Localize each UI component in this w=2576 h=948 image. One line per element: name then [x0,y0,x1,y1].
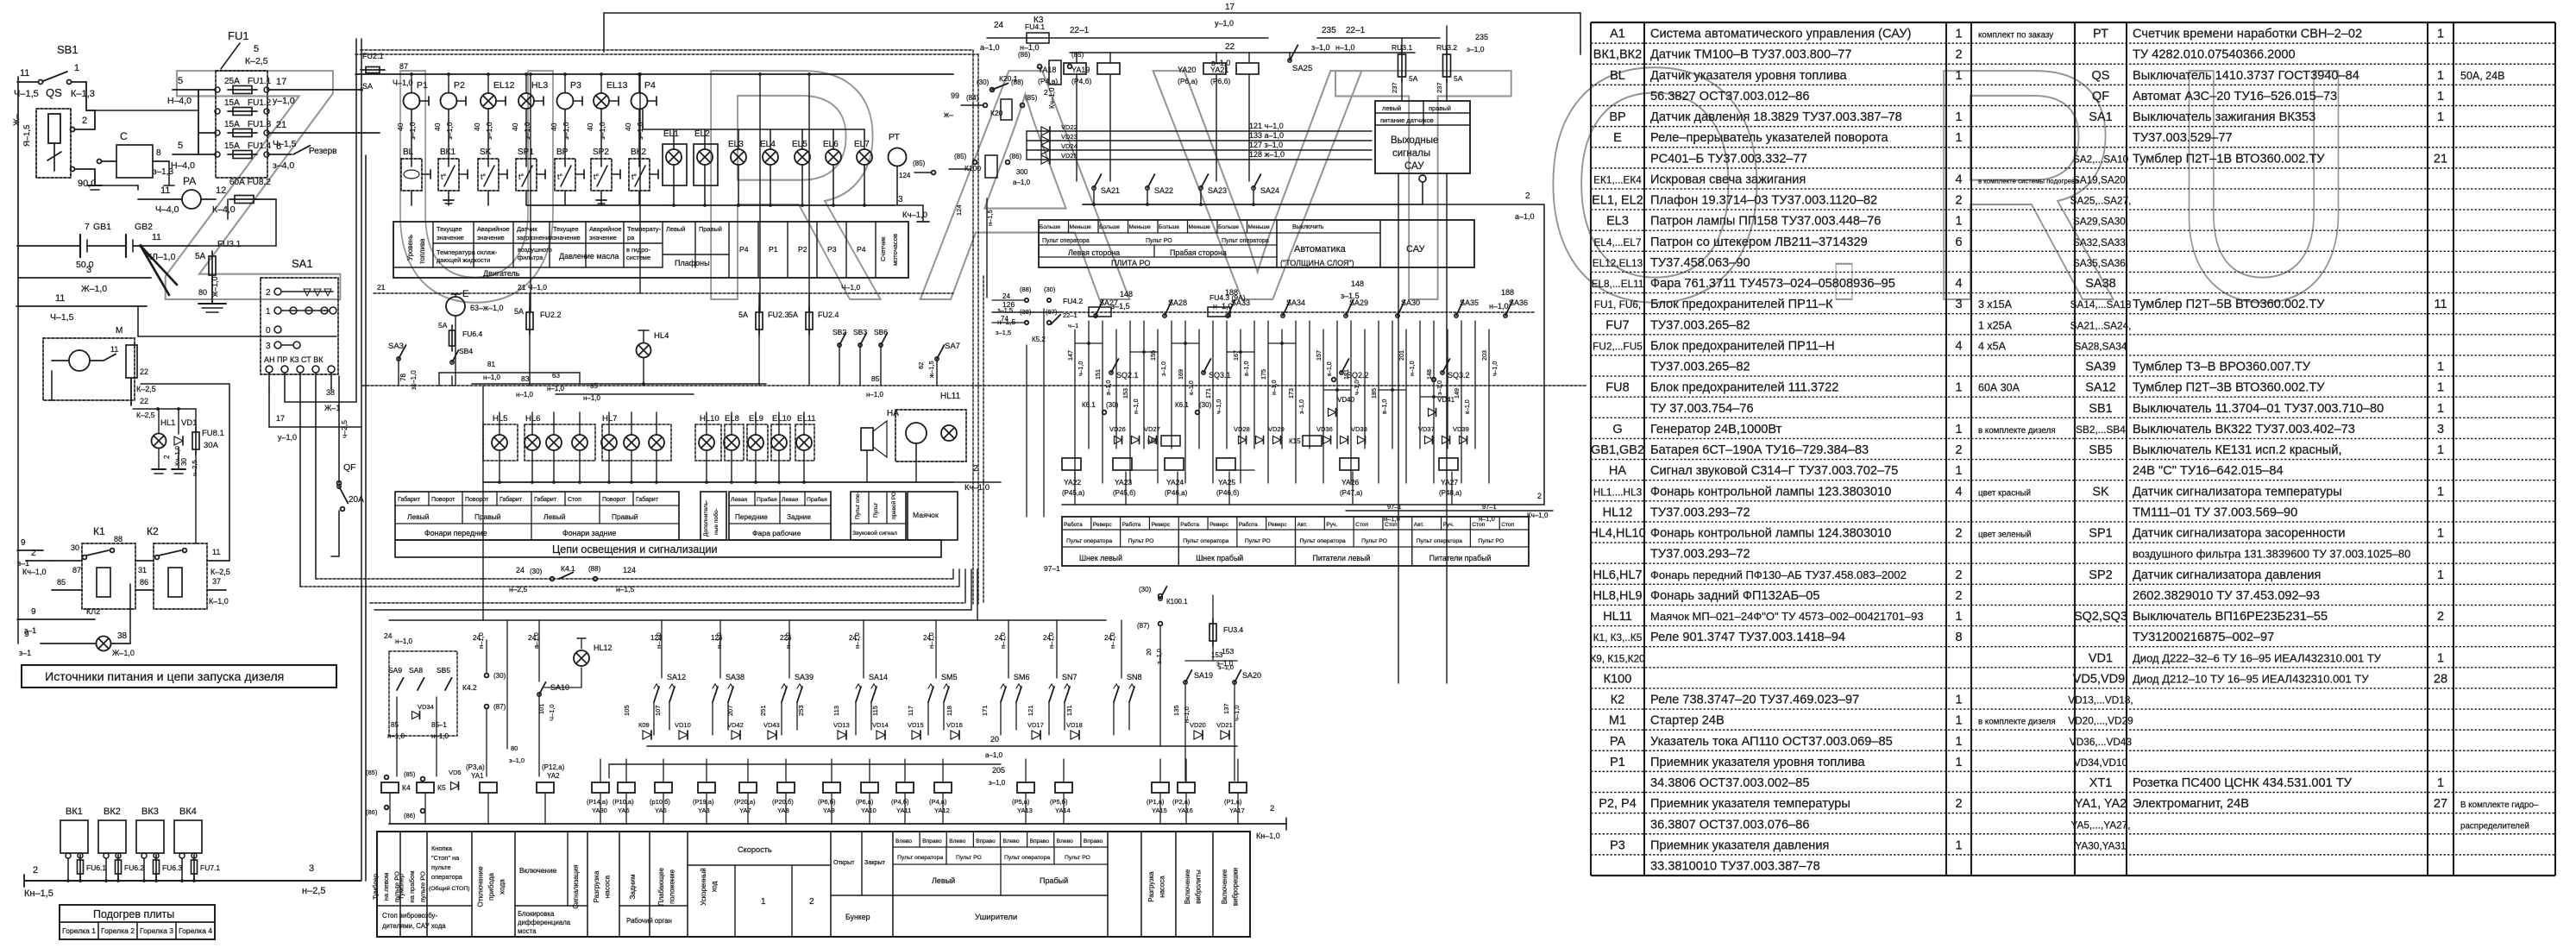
svg-text:VD42: VD42 [727,721,744,729]
svg-text:(85): (85) [913,160,926,167]
svg-text:з–1,0: з–1,0 [1216,660,1234,668]
svg-text:Работа: Работа [1239,521,1258,528]
svg-text:SB1: SB1 [57,43,79,56]
svg-text:FU3.1: FU3.1 [217,240,242,249]
svg-text:Пульт оператора: Пульт оператора [1183,538,1228,544]
svg-text:Датчик указателя уровня топлив: Датчик указателя уровня топлива [1650,69,1848,83]
svg-text:22: 22 [1225,42,1235,52]
bottom switch row and coils [389,586,1286,840]
svg-text:VD26: VD26 [1109,425,1126,433]
svg-text:К1, К3,..К5: К1, К3,..К5 [1593,631,1643,644]
svg-text:К2: К2 [147,525,159,537]
svg-text:(Р1,а): (Р1,а) [1224,798,1242,806]
svg-text:з–1,0: з–1,0 [485,122,493,140]
svg-text:Выключатель 1410.3737 ГОСТ: Выключатель 1410.3737 ГОСТ3940–84 [2133,69,2359,83]
svg-text:Батарея 6СТ–190А ТУ16–729.384–: Батарея 6СТ–190А ТУ16–729.384–83 [1650,443,1869,457]
svg-text:5: 5 [178,76,183,86]
svg-text:BL: BL [403,148,414,157]
svg-text:t°: t° [481,173,487,181]
svg-text:Пульт РО: Пульт РО [1065,855,1090,861]
svg-text:YA26: YA26 [1341,478,1359,487]
svg-text:н–1,0: н–1,0 [477,632,485,649]
svg-text:ж–: ж– [944,110,953,119]
svg-text:148: 148 [1351,279,1364,288]
svg-text:(85): (85) [954,153,967,160]
svg-text:К–2,5: К–2,5 [136,411,155,419]
svg-text:1: 1 [2437,69,2444,83]
svg-text:FU1.1: FU1.1 [248,77,272,86]
svg-text:EL10: EL10 [772,414,791,424]
svg-text:ч–1,0: ч–1,0 [1216,399,1222,414]
svg-text:HL12: HL12 [594,644,613,652]
svg-text:(87): (87) [493,703,506,711]
svg-text:1: 1 [1955,714,1962,728]
svg-text:н–1,0: н–1,0 [1047,632,1055,649]
svg-text:EL8: EL8 [725,414,739,424]
svg-text:SA12: SA12 [667,673,686,681]
svg-text:8: 8 [156,148,161,158]
svg-text:Рабочий орган: Рабочий орган [626,917,672,925]
svg-text:Прабая: Прабая [757,496,777,503]
svg-text:0: 0 [266,326,271,336]
svg-text:1: 1 [2437,402,2444,416]
svg-text:ч–1,0: ч–1,0 [1492,361,1498,376]
svg-text:SA28: SA28 [1168,298,1187,307]
svg-text:22: 22 [140,367,148,376]
svg-text:(86): (86) [404,812,416,819]
svg-text:Розетка ПС400 ЦСНК 434.531.001: Розетка ПС400 ЦСНК 434.531.001 ТУ [2133,776,2353,790]
svg-text:з–1,0: з–1,0 [509,757,525,764]
switch QS [12,86,102,190]
svg-text:1: 1 [1955,381,1962,395]
svg-text:4: 4 [1955,339,1962,353]
svg-text:Цепи освещения и сигнализац: Цепи освещения и сигнализации [552,543,718,556]
svg-text:Р2, Р4: Р2, Р4 [1599,797,1637,811]
svg-text:YA1: YA1 [471,772,484,780]
svg-text:Генератор 24В,1000Вт: Генератор 24В,1000Вт [1650,423,1782,436]
svg-text:н–1,0: н–1,0 [395,637,413,645]
svg-text:T: T [1329,0,1518,370]
svg-text:HL7: HL7 [602,414,617,424]
svg-text:15А: 15А [224,98,240,108]
svg-text:EL4: EL4 [760,140,776,149]
svg-text:(Р19,а): (Р19,а) [693,798,714,806]
svg-text:2: 2 [1955,48,1962,62]
svg-text:Прабый: Прабый [1040,876,1068,885]
svg-text:Горелка 3: Горелка 3 [140,926,173,935]
svg-text:(Р20,а): (Р20,а) [734,798,756,806]
svg-text:в–1,0: в–1,0 [1244,361,1250,376]
svg-text:(Р6,б): (Р6,б) [818,798,836,806]
svg-text:(Р4,а): (Р4,а) [929,798,947,806]
svg-text:SA1: SA1 [292,257,313,270]
svg-text:VD36,...VD43: VD36,...VD43 [2070,736,2133,748]
svg-text:Указатель тока АП110 ОСТ37.003: Указатель тока АП110 ОСТ37.003.069–85 [1650,735,1893,749]
svg-text:пульте: пульте [431,863,451,871]
svg-text:Счетчик: Счетчик [879,236,887,261]
svg-text:15А: 15А [224,141,240,151]
svg-text:2: 2 [82,116,87,126]
svg-text:97–1: 97–1 [1482,503,1497,511]
lamp row HL5-HL11 and horn HA [362,374,1587,493]
svg-text:EL3: EL3 [728,140,744,149]
starter M1 circuit [43,326,156,405]
svg-text:11: 11 [152,232,161,242]
svg-text:YA21: YA21 [1210,66,1228,74]
ammeter PA [138,175,236,215]
svg-text:SA21,..SA24,: SA21,..SA24, [2070,319,2132,331]
svg-text:Фара рабочие: Фара рабочие [752,529,801,537]
svg-text:24: 24 [516,566,525,574]
svg-text:30: 30 [71,543,79,552]
svg-text:з–1,0: з–1,0 [1299,399,1305,414]
svg-text:к–1,0: к–1,0 [1189,380,1195,395]
svg-text:2: 2 [163,455,171,459]
svg-text:YA24: YA24 [1166,478,1184,487]
svg-text:Больше: Больше [1218,224,1239,230]
svg-text:Реверс: Реверс [1268,522,1288,528]
svg-text:(Общий СТОП): (Общий СТОП) [429,885,469,892]
svg-text:ТУ 37.003.754–76: ТУ 37.003.754–76 [1650,402,1754,416]
svg-text:Р2: Р2 [454,80,465,91]
svg-text:147: 147 [1066,350,1074,361]
svg-text:3: 3 [86,265,91,275]
svg-text:235: 235 [1475,33,1488,41]
svg-text:HL5: HL5 [493,414,507,424]
svg-text:40: 40 [586,122,594,131]
svg-text:Правый: Правый [474,512,501,521]
svg-text:1: 1 [1955,735,1962,749]
svg-text:SА: SА [362,82,373,91]
svg-text:Тумблер П2Т–5В ВТО360.: Тумблер П2Т–5В ВТО360.002.ТУ [2133,298,2325,311]
svg-text:EL1, EL2: EL1, EL2 [1592,194,1643,208]
switch row SA27-SA36 [992,279,1536,326]
svg-text:237: 237 [1436,82,1443,93]
svg-text:Поворот: Поворот [431,497,456,503]
svg-text:(Р48,а): (Р48,а) [1439,489,1462,497]
svg-text:Пульт: Пульт [873,503,879,518]
svg-text:Сигнал звуковой С314–Г ТУ37.00: Сигнал звуковой С314–Г ТУ37.003.702–75 [1650,464,1898,478]
svg-text:"Стоп" на: "Стоп" на [431,854,460,862]
svg-text:SN7: SN7 [1062,673,1078,681]
svg-text:1: 1 [2437,90,2444,104]
glow plugs BK1-BK4 [24,807,361,899]
svg-text:1: 1 [1955,838,1962,852]
svg-text:Пульт РО: Пульт РО [1245,538,1271,544]
svg-text:133 а–1,0: 133 а–1,0 [1249,131,1284,140]
svg-text:SA35,SA36,: SA35,SA36, [2073,257,2128,269]
svg-text:н–1,0: н–1,0 [1489,302,1509,311]
svg-text:топлива: топлива [418,238,426,264]
svg-text:151: 151 [1094,369,1102,380]
svg-text:SA14: SA14 [869,673,888,681]
svg-text:YA30,YA31: YA30,YA31 [2075,839,2126,851]
svg-text:GB2: GB2 [135,222,153,232]
main horizontal buses [300,39,1544,881]
svg-text:Поворот: Поворот [465,497,489,503]
svg-text:ч–1: ч–1 [1068,322,1078,330]
svg-text:EL4,...EL7: EL4,...EL7 [1593,236,1641,248]
svg-text:з–1,0: з–1,0 [1155,649,1163,664]
svg-text:з–1,0: з–1,0 [445,122,454,140]
svg-text:н–1,0: н–1,0 [1183,706,1191,723]
svg-text:з–4,0: з–4,0 [273,160,294,171]
svg-text:121: 121 [1027,705,1034,716]
svg-text:Блок предохранителей ПР11–Н: Блок предохранителей ПР11–Н [1650,339,1835,353]
svg-text:YA22: YA22 [1064,478,1081,487]
svg-text:56.3827 ОСТ37.003.012–86: 56.3827 ОСТ37.003.012–86 [1650,90,1810,104]
svg-text:Р1: Р1 [769,245,778,254]
svg-text:VD13: VD13 [833,721,850,729]
svg-text:121 ч–1,0: 121 ч–1,0 [1249,122,1284,130]
svg-text:Стоп: Стоп [1501,522,1514,528]
svg-text:30: 30 [180,458,188,466]
svg-text:FU2.1: FU2.1 [362,52,384,60]
svg-text:128 ж–1,0: 128 ж–1,0 [1249,150,1285,159]
sensor header table [393,222,908,278]
svg-text:Пульт опе-: Пульт опе- [855,492,861,519]
svg-text:20: 20 [990,735,999,744]
svg-text:значение: значение [477,234,505,242]
svg-text:в–1,0: в–1,0 [1106,380,1112,395]
svg-text:Р3: Р3 [827,245,837,254]
svg-text:Подогрев плиты: Подогрев плиты [93,908,174,920]
control cluster SA9 SA10 K4 K5 [366,620,613,824]
svg-text:Автоматика: Автоматика [1294,244,1347,254]
svg-text:t°: t° [557,173,563,181]
top wire 17 [604,3,1580,54]
svg-text:правой РО: правой РО [890,492,897,519]
svg-text:99: 99 [951,91,959,100]
svg-text:н–1,0: н–1,0 [784,632,792,649]
svg-text:173: 173 [1287,388,1295,399]
svg-text:HL1....HL3: HL1....HL3 [1593,486,1643,498]
svg-text:QF: QF [343,462,356,473]
svg-text:Текущее: Текущее [437,225,462,233]
svg-text:207: 207 [726,705,734,716]
svg-text:Вправо: Вправо [1030,838,1050,844]
svg-text:Пульт оператора: Пульт оператора [1042,238,1090,244]
svg-text:11: 11 [110,345,118,354]
svg-text:Вправо: Вправо [922,838,942,844]
svg-text:Выключатель зажигания ВК353: Выключатель зажигания ВК353 [2133,110,2315,124]
svg-text:з–1,0: з–1,0 [1311,43,1330,52]
svg-text:VD1: VD1 [181,418,197,428]
svg-text:Стоп вибровозбу-: Стоп вибровозбу- [382,912,437,920]
svg-text:HL6,HL7: HL6,HL7 [1593,568,1642,582]
svg-text:Счетчик времени наработки С: Счетчик времени наработки СВН–2–02 [2133,28,2362,41]
svg-text:127 з–1,0: 127 з–1,0 [1249,141,1283,149]
svg-text:253: 253 [797,705,805,716]
svg-text:40: 40 [511,122,519,131]
svg-text:SР1: SР1 [518,148,534,157]
svg-text:9: 9 [24,630,29,639]
lamp HL2 [19,584,135,657]
svg-text:VD22: VD22 [1061,123,1078,131]
svg-text:EL3: EL3 [1606,215,1629,229]
svg-text:Фара 761.3711 ТУ4573–024–05808: Фара 761.3711 ТУ4573–024–05808936–95 [1650,277,1895,291]
svg-text:5А: 5А [195,252,206,261]
svg-text:(30): (30) [1044,286,1056,293]
svg-text:К2: К2 [1611,694,1625,707]
relays K1 K2 [17,525,230,635]
svg-text:1: 1 [2437,776,2444,790]
svg-text:YA25: YA25 [1218,478,1235,487]
svg-text:Питатели левый: Питатели левый [1313,554,1371,562]
svg-text:Стоп: Стоп [568,497,581,503]
svg-text:33.3810010 ТУ37.003.387–78: 33.3810010 ТУ37.003.387–78 [1650,860,1820,874]
wire bundle from SA1 and QF [18,39,364,644]
svg-text:63–ж–1,0: 63–ж–1,0 [470,304,504,312]
svg-text:G: G [1612,423,1622,436]
svg-text:2: 2 [33,865,38,876]
svg-text:ТМ111–01 ТУ 37.003.569–90: ТМ111–01 ТУ 37.003.569–90 [2133,505,2297,519]
svg-text:Левый: Левый [543,512,566,521]
svg-text:(Р20,б): (Р20,б) [772,798,794,806]
svg-text:SA7: SA7 [945,342,960,351]
svg-text:насоса: насоса [1158,876,1165,898]
lamp HL1 and fuse FU8.1 [133,384,229,561]
svg-text:t°: t° [631,173,638,181]
automation header table [1039,220,1474,267]
svg-text:201: 201 [1398,350,1405,361]
fuse FU8.2 [229,178,276,204]
svg-text:вибролиты: вибролиты [1194,870,1202,904]
svg-text:ж–1,5: ж–1,5 [927,361,935,378]
svg-text:н–1,0: н–1,0 [999,632,1007,649]
svg-text:К09: К09 [638,721,650,729]
svg-text:11: 11 [20,68,29,78]
svg-text:185: 185 [1370,388,1378,399]
svg-text:Датчик сигнализатора температу: Датчик сигнализатора температуры [2133,485,2342,499]
svg-text:К–2,5: К–2,5 [210,568,230,576]
svg-text:з–1,5: з–1,5 [1341,292,1360,300]
svg-text:(86): (86) [1018,51,1031,59]
svg-text:11: 11 [212,548,220,556]
svg-text:Кч–1,0: Кч–1,0 [1527,512,1549,519]
svg-text:н–1,0: н–1,0 [927,632,935,649]
svg-text:К4.1: К4.1 [561,564,575,573]
svg-text:з–1,0: з–1,0 [562,122,570,140]
svg-text:31: 31 [138,566,147,574]
svg-text:Бункер: Бункер [845,913,870,921]
svg-text:а–1,0: а–1,0 [1515,212,1535,221]
svg-text:153: 153 [1122,388,1129,399]
svg-text:Правый: Правый [699,225,722,233]
svg-text:К5: К5 [437,783,446,792]
svg-text:з–1,0: з–1,0 [408,122,417,140]
svg-text:SМ5: SМ5 [941,673,958,681]
svg-text:EL6: EL6 [823,140,839,149]
svg-text:Левая: Левая [782,497,799,503]
svg-text:VD13,...VD18,: VD13,...VD18, [2068,694,2133,706]
svg-text:комплект по заказу: комплект по заказу [1978,31,2053,41]
svg-text:ч–1,0: ч–1,0 [1078,361,1084,376]
svg-text:(Р1,а): (Р1,а) [1147,798,1165,806]
svg-text:(85): (85) [1071,51,1084,59]
svg-text:SA39: SA39 [2085,361,2115,374]
svg-text:63: 63 [552,372,560,380]
svg-text:ТУ37.003.265–82: ТУ37.003.265–82 [1650,361,1750,374]
svg-text:н–1,0: н–1,0 [715,632,723,649]
svg-text:1: 1 [2437,361,2444,374]
svg-text:Фонарь передний ПФ130–АБ ТУ37.: Фонарь передний ПФ130–АБ ТУ37.458.083–20… [1650,568,1907,581]
svg-text:22: 22 [140,397,148,405]
svg-text:FU6.4: FU6.4 [462,330,482,338]
svg-text:HL4: HL4 [654,331,669,341]
svg-text:VD36: VD36 [1316,425,1333,433]
svg-text:12: 12 [216,185,226,196]
svg-text:(85): (85) [404,770,416,778]
svg-text:SQ3.2: SQ3.2 [1448,371,1470,380]
svg-text:3: 3 [266,342,271,351]
svg-text:ТУ37.003.265–82: ТУ37.003.265–82 [1650,318,1750,332]
svg-text:з–1,0: з–1,0 [1467,45,1485,53]
svg-text:Датчик: Датчик [517,225,537,233]
svg-text:5: 5 [178,141,183,151]
svg-text:(Р5,б): (Р5,б) [1050,798,1068,806]
svg-text:Тумблер: Тумблер [398,874,405,900]
svg-text:Уровень: Уровень [406,235,414,261]
svg-text:ВК4: ВК4 [179,807,197,817]
svg-text:Пульт РО: Пульт РО [956,855,982,861]
svg-text:36.3807 ОСТ37.003.076–86: 36.3807 ОСТ37.003.076–86 [1650,818,1810,832]
svg-text:Кнопка: Кнопка [431,844,453,852]
svg-text:Влево: Влево [1057,838,1073,844]
svg-text:Аварийное: Аварийное [589,225,622,233]
svg-text:1: 1 [1955,69,1962,83]
svg-text:(86): (86) [366,808,378,816]
svg-text:Система автоматического управл: Система автоматического управления (САУ) [1650,28,1911,41]
svg-text:78: 78 [399,374,407,381]
svg-text:(Р2,а): (Р2,а) [1172,798,1191,806]
svg-text:VD23: VD23 [1061,133,1078,141]
svg-text:SP1: SP1 [2089,527,2112,541]
svg-text:237: 237 [1391,82,1398,93]
svg-text:распределителей: распределителей [2460,821,2529,831]
svg-text:157: 157 [1315,350,1323,361]
svg-text:6: 6 [276,141,281,152]
svg-text:SA23: SA23 [1208,186,1227,195]
svg-text:SA19: SA19 [1194,671,1213,680]
svg-text:Шнек прабый: Шнек прабый [1196,554,1243,562]
svg-text:Ж–1,0: Ж–1,0 [112,649,135,657]
svg-text:з–1,5: з–1,5 [996,329,1011,336]
svg-text:(30): (30) [493,672,506,680]
svg-text:Ч–1,0: Ч–1,0 [548,704,556,721]
svg-text:2: 2 [1525,191,1530,201]
svg-text:Датчик ТМ100–В ТУ37.003.800–77: Датчик ТМ100–В ТУ37.003.800–77 [1650,48,1851,62]
svg-text:цвет красный: цвет красный [1978,488,2031,498]
svg-text:н–1,0: н–1,0 [583,394,601,402]
svg-text:Включение: Включение [1221,870,1228,904]
svg-text:(85): (85) [366,769,378,776]
label source circuits box [22,665,336,687]
svg-text:203: 203 [1480,350,1488,361]
svg-text:(Р45,а): (Р45,а) [1062,489,1085,497]
svg-text:171: 171 [1204,388,1212,399]
svg-text:правый: правый [1429,104,1451,112]
svg-text:28: 28 [2434,672,2447,686]
svg-text:Габарит: Габарит [636,496,659,503]
svg-text:1: 1 [1955,464,1962,478]
svg-text:Вправо: Вправо [1084,838,1103,844]
svg-text:н–1,0: н–1,0 [1410,361,1416,376]
svg-text:117: 117 [907,706,914,716]
svg-text:К–2,5: К–2,5 [245,56,268,66]
svg-text:сигналы: сигналы [1392,148,1430,159]
svg-text:Выключатель ВП16РЕ23Б231–55: Выключатель ВП16РЕ23Б231–55 [2133,610,2328,624]
